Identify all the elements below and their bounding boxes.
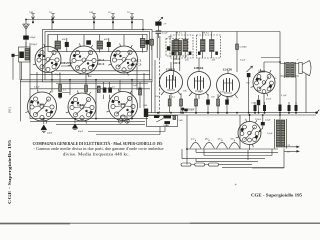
tuning capacitor section 4 xyxy=(229,140,240,149)
svg-text:0,5MΩ: 0,5MΩ xyxy=(240,46,247,49)
wire row2 bottom bundle xyxy=(30,119,165,135)
tuning capacitor section 3 xyxy=(217,140,228,149)
dial cord oval 2 xyxy=(195,163,205,166)
resistor R14 on bus xyxy=(295,102,298,113)
svg-text:5,0µF: 5,0µF xyxy=(267,132,273,135)
dial cord oval 3 xyxy=(209,163,219,166)
resistor R17 xyxy=(180,93,183,113)
main bus double xyxy=(148,110,319,115)
svg-text:BT: BT xyxy=(287,151,291,154)
wire mid horizontal xyxy=(30,71,150,89)
svg-text:M.F.1: M.F.1 xyxy=(176,32,182,35)
band switch arrow S5 xyxy=(130,14,134,24)
tiny value labels front-end xyxy=(29,11,271,122)
svg-text:470k: 470k xyxy=(220,91,226,94)
shield box outer xyxy=(43,30,153,82)
svg-text:0,1µF: 0,1µF xyxy=(281,94,287,97)
fuse F1 xyxy=(181,108,184,113)
loudspeaker LS xyxy=(299,61,311,76)
separator dashed xyxy=(158,58,160,118)
svg-text:CGE - Supergioiello 195: CGE - Supergioiello 195 xyxy=(7,139,12,204)
tube V6 socket xyxy=(109,92,138,121)
trimmer C3 xyxy=(65,38,69,51)
svg-text:divise. Media frequenza 440 kc: divise. Media frequenza 440 kc. xyxy=(63,152,130,156)
coil L2 xyxy=(55,35,61,53)
svg-text:200pF: 200pF xyxy=(31,43,38,46)
wire top bus xyxy=(26,19,143,21)
value labels scattered xyxy=(34,59,299,154)
svg-text:12AT6: 12AT6 xyxy=(118,103,126,106)
svg-text:12BA6: 12BA6 xyxy=(194,66,204,70)
capacitor C7 xyxy=(108,88,112,93)
svg-text:35W4: 35W4 xyxy=(255,118,262,121)
tube V4 socket xyxy=(28,92,57,121)
capacitor C12 xyxy=(225,97,229,113)
svg-text:M.F.2: M.F.2 xyxy=(203,32,209,35)
svg-text:25µF: 25µF xyxy=(240,59,246,62)
svg-text:2V: 2V xyxy=(164,23,167,26)
svg-text:COMPAGNIA GENERALE DI ELETTRIC: COMPAGNIA GENERALE DI ELETTRICITÀ - Mod.… xyxy=(33,141,164,146)
svg-text:12BE6: 12BE6 xyxy=(37,104,45,107)
band switch arrow S2 xyxy=(51,14,55,24)
IF transformer T2 xyxy=(197,32,221,59)
resistor R18 xyxy=(195,94,198,113)
scan edge shadow bottom xyxy=(0,222,320,224)
capacitor C14 5uF xyxy=(259,115,265,132)
capacitor C8 xyxy=(144,109,148,118)
antenna A1 xyxy=(23,20,30,36)
wire left verticals xyxy=(20,43,37,89)
output arrows xyxy=(284,146,300,153)
wire center verticals xyxy=(52,73,132,119)
IF transformer T1 xyxy=(170,32,193,59)
svg-text:OC: OC xyxy=(127,11,131,14)
svg-text:OC3: OC3 xyxy=(135,63,142,67)
resistor R16 xyxy=(168,95,171,113)
band switch arrow S3 xyxy=(92,14,96,24)
svg-text:0,5µF: 0,5µF xyxy=(162,32,168,35)
dial cord oval 1 xyxy=(181,163,191,166)
resistor R1 chain xyxy=(58,73,62,100)
output transformer T3 xyxy=(280,62,299,78)
capacitor C17 xyxy=(86,40,91,44)
tube V7 output socket xyxy=(253,62,275,105)
resistor R15 xyxy=(236,44,239,50)
capacitor C16 on bus xyxy=(184,109,188,113)
tube V2 socket xyxy=(70,46,98,74)
wire bottom right xyxy=(248,149,284,169)
svg-text:50B5: 50B5 xyxy=(258,70,266,74)
mains switch box xyxy=(147,115,178,126)
tube V3 socket xyxy=(111,46,138,73)
resistor R3 xyxy=(139,82,142,108)
svg-text:5,0µF: 5,0µF xyxy=(265,119,271,122)
tube pin contacts xyxy=(30,53,272,138)
pickup coil box xyxy=(12,42,31,80)
oscillator coil box xyxy=(166,39,188,57)
svg-text:[81]: [81] xyxy=(8,107,12,113)
capacitor C1 500pF xyxy=(23,36,29,49)
wire right column xyxy=(264,62,306,113)
svg-text:OC: OC xyxy=(108,11,112,14)
tube V2b side view xyxy=(188,58,211,99)
tube designation labels xyxy=(37,57,266,107)
svg-text:500µF: 500µF xyxy=(163,124,170,127)
trimmer C5 xyxy=(145,39,153,50)
band switch arrow S4 xyxy=(111,14,115,24)
band switch arrow S1 xyxy=(31,14,35,24)
filter choke T4 xyxy=(275,115,287,149)
svg-text:47µF: 47µF xyxy=(266,98,272,101)
resistor R12 on bus xyxy=(279,101,282,113)
rectifier V8 socket xyxy=(238,115,261,150)
svg-text:40µF: 40µF xyxy=(47,132,53,135)
tuning capacitor section 2 xyxy=(204,140,215,149)
electrolytic capacitor C9 xyxy=(41,119,47,133)
electrolytic capacitor C15 xyxy=(72,119,78,130)
wire row1 bottom double xyxy=(20,80,152,82)
wire lamp leads xyxy=(157,34,160,58)
svg-text:5µF: 5µF xyxy=(133,84,138,87)
tube pin leads xyxy=(25,43,271,147)
capacitor C11 xyxy=(206,94,210,113)
tube V5 socket xyxy=(68,93,96,121)
AVC diode arrow xyxy=(247,66,253,113)
pilot lamp P1 2V xyxy=(155,17,163,31)
shield box coils xyxy=(48,35,147,52)
wire junction dots 2 xyxy=(25,19,281,150)
tube V3b side view xyxy=(217,70,240,101)
svg-text:MEZEL: MEZEL xyxy=(61,61,74,65)
wire top right xyxy=(152,32,280,73)
coil L3 xyxy=(97,35,103,53)
oscillator coil L5 xyxy=(167,41,187,56)
capacitor C6 xyxy=(97,86,106,93)
svg-text:12AT6: 12AT6 xyxy=(223,68,233,72)
svg-text:OC: OC xyxy=(49,11,53,14)
svg-text:25µF: 25µF xyxy=(55,73,61,76)
wire misc verticals front xyxy=(52,20,143,30)
resistor R13 on bus xyxy=(288,102,291,113)
wire vertical stubs xyxy=(21,35,180,122)
shield box inner xyxy=(45,32,150,80)
phone jack J1 xyxy=(118,116,129,123)
bus junction dots xyxy=(157,112,318,117)
tube V1b side view xyxy=(160,62,183,99)
svg-text:1kΩ: 1kΩ xyxy=(143,104,147,107)
svg-text:12BA6: 12BA6 xyxy=(77,104,85,107)
svg-text:0,1µF: 0,1µF xyxy=(34,86,40,89)
svg-text:40µF: 40µF xyxy=(78,130,84,133)
capacitor C10 xyxy=(156,31,162,38)
resistor R2 chain xyxy=(85,75,88,95)
svg-text:OC4: OC4 xyxy=(98,62,105,66)
tube V1 socket xyxy=(35,47,61,73)
svg-text:0,5µF: 0,5µF xyxy=(189,109,195,112)
svg-text:CGE - Supergioiello 195: CGE - Supergioiello 195 xyxy=(251,192,302,197)
resistor R10 on bus xyxy=(254,102,257,113)
tuning capacitor section 1 xyxy=(190,140,201,149)
svg-text:500pF: 500pF xyxy=(30,36,37,39)
trimmer C4 xyxy=(107,38,111,51)
resistor R19 xyxy=(217,94,220,113)
svg-text:OSC: OSC xyxy=(168,36,173,39)
svg-text:OC3: OC3 xyxy=(173,61,180,65)
coil L4 xyxy=(140,35,145,53)
tiny value labels IF section xyxy=(163,90,287,141)
resistor R11 on bus xyxy=(263,102,266,113)
capacitor C13 xyxy=(257,95,260,113)
svg-text:12BE6: 12BE6 xyxy=(166,68,176,72)
wire tuning bundle xyxy=(182,115,284,168)
svg-text:5kΩ: 5kΩ xyxy=(179,119,183,122)
